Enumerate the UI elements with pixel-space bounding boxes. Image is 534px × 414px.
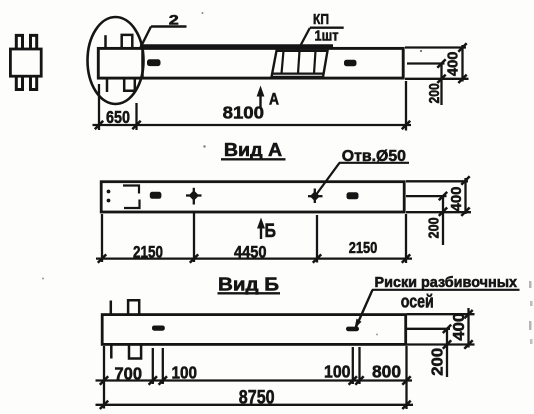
svg-text:Вид А: Вид А <box>224 140 282 160</box>
svg-text:1шт: 1шт <box>315 28 339 44</box>
svg-text:200: 200 <box>429 348 446 376</box>
svg-text:200: 200 <box>427 83 443 103</box>
svg-text:А: А <box>269 91 279 109</box>
svg-text:4450: 4450 <box>234 242 267 261</box>
svg-text:400: 400 <box>445 52 462 77</box>
svg-text:200: 200 <box>427 217 443 238</box>
svg-text:2150: 2150 <box>349 240 378 257</box>
svg-text:Вид Б: Вид Б <box>218 275 279 295</box>
svg-text:700: 700 <box>115 364 143 384</box>
svg-text:Риски разбивочных: Риски разбивочных <box>375 275 518 291</box>
svg-text:2150: 2150 <box>133 242 163 261</box>
svg-text:8750: 8750 <box>239 387 275 408</box>
svg-text:400: 400 <box>451 313 468 341</box>
svg-text:осей: осей <box>401 292 434 312</box>
svg-text:Б: Б <box>265 221 277 242</box>
svg-text:КП: КП <box>313 12 329 28</box>
svg-text:100: 100 <box>172 363 198 383</box>
svg-text:800: 800 <box>372 362 401 382</box>
svg-text:8100: 8100 <box>223 103 265 123</box>
svg-text:2: 2 <box>169 12 179 28</box>
svg-text:650: 650 <box>106 107 130 127</box>
svg-text:Отв.Ø50: Отв.Ø50 <box>342 148 406 165</box>
svg-text:100: 100 <box>324 362 351 382</box>
svg-text:400: 400 <box>448 187 465 212</box>
